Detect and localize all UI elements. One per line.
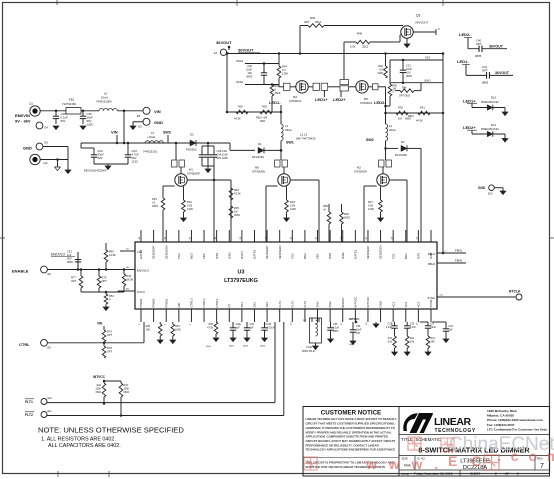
svg-text:SENSE3P: SENSE3P <box>152 246 156 259</box>
svg-text:. c o m: . c o m <box>497 448 554 464</box>
svg-text:R26: R26 <box>238 105 243 109</box>
svg-text:PWM2: PWM2 <box>152 298 156 307</box>
svg-text:OPT: OPT <box>71 279 77 283</box>
sense resistor R18 <box>286 186 288 200</box>
pin top 7 ISP3 <box>216 230 218 242</box>
svg-text:C46 10uF: C46 10uF <box>217 153 229 157</box>
svg-text:OPT 0603: OPT 0603 <box>399 95 411 98</box>
svg-text:50V: 50V <box>67 257 72 261</box>
svg-text:FLT2: FLT2 <box>25 413 33 417</box>
svg-text:FBH1: FBH1 <box>428 252 436 256</box>
svg-text:FLT1: FLT1 <box>25 400 33 404</box>
svg-text:0603: 0603 <box>234 213 240 217</box>
svg-text:WE-744778433: WE-744778433 <box>296 137 316 141</box>
pin top 2 SENSE3P <box>153 230 155 242</box>
svg-text:Fax: (408)434-0507: Fax: (408)434-0507 <box>487 423 515 427</box>
wire FB1 to L6 <box>81 110 99 112</box>
resistor R46 <box>344 41 356 43</box>
svg-text:NOTE: UNLESS OTHERWISE SPECIFI: NOTE: UNLESS OTHERWISE SPECIFIED <box>38 426 184 435</box>
svg-text:0603: 0603 <box>333 330 339 333</box>
capacitor C20 <box>263 64 265 73</box>
svg-text:R29: R29 <box>262 105 267 109</box>
pin top 3 SENSE3N <box>165 230 167 242</box>
resistor R30 top <box>299 26 301 54</box>
ground <box>244 338 250 342</box>
svg-text:VC2: VC2 <box>404 301 408 307</box>
svg-text:CTRL1: CTRL1 <box>215 298 219 308</box>
pin bottom 14 FLT3 <box>304 309 306 322</box>
svg-text:R33: R33 <box>152 197 157 201</box>
svg-text:CTRL2: CTRL2 <box>202 298 206 308</box>
svg-text:D1: D1 <box>258 142 262 146</box>
inductor L1 <box>280 106 282 124</box>
resistor R75 <box>102 330 106 342</box>
resistor R40 <box>105 243 107 250</box>
svg-text:33uH: 33uH <box>389 128 396 132</box>
svg-text:RTCLK: RTCLK <box>509 290 521 294</box>
svg-text:R32: R32 <box>234 188 239 192</box>
node LED2- vertical <box>385 107 387 124</box>
svg-text:OPT: OPT <box>482 69 488 73</box>
svg-text:CTRL: CTRL <box>19 342 30 347</box>
svg-text:TG3: TG3 <box>177 253 181 259</box>
ground <box>313 346 319 350</box>
svg-text:LED2+: LED2+ <box>333 97 346 102</box>
svg-text:0603: 0603 <box>152 204 158 208</box>
svg-text:9V - 36V: 9V - 36V <box>15 119 31 124</box>
svg-text:E5: E5 <box>139 125 143 129</box>
wire L6 to VIN turret <box>117 110 143 112</box>
wire FLT2 <box>47 415 284 417</box>
svg-text:FBH2: FBH2 <box>455 259 463 263</box>
svg-text:1M: 1M <box>234 210 238 214</box>
svg-text:OPT: OPT <box>304 20 310 24</box>
turret E8 ENABLE <box>41 266 48 273</box>
feedback divider left R26 R29 <box>227 111 281 113</box>
svg-text:OVP3: OVP3 <box>240 251 244 259</box>
svg-text:0.05: 0.05 <box>290 204 296 208</box>
ground <box>284 218 290 222</box>
capacitor C32 <box>232 322 234 328</box>
pin bottom 12 FLT1 <box>279 309 281 322</box>
pin top 6 FB3 <box>203 230 205 242</box>
node LED1+ drop <box>323 90 325 97</box>
wire gate vertical <box>364 185 377 187</box>
svg-text:GATE2: GATE2 <box>253 249 257 259</box>
switch M4 left pad <box>284 83 291 90</box>
ground <box>378 218 384 222</box>
svg-text:742792150: 742792150 <box>62 102 76 106</box>
wire left FB vertical <box>226 54 228 113</box>
svg-text:1. ALL RESISTORS ARE 0402.: 1. ALL RESISTORS ARE 0402. <box>41 437 116 443</box>
resistor R32 <box>229 188 233 200</box>
svg-text:GND: GND <box>23 146 32 151</box>
svg-text:1206: 1206 <box>282 72 288 76</box>
svg-text:BG3: BG3 <box>190 253 194 259</box>
ground <box>80 126 86 130</box>
ground <box>213 338 219 342</box>
svg-text:PMEG6010CEJ: PMEG6010CEJ <box>481 101 499 104</box>
svg-text:36VOUT: 36VOUT <box>495 71 510 75</box>
svg-text:BOOST: BOOST <box>341 297 345 307</box>
diode D2 <box>386 147 399 149</box>
svg-text:INTVCC: INTVCC <box>349 317 359 321</box>
svg-text:I/S2H: I/S2H <box>236 59 243 63</box>
svg-text:VC3: VC3 <box>416 301 420 307</box>
svg-text:33uH: 33uH <box>285 128 292 132</box>
svg-text:R35: R35 <box>234 206 239 210</box>
pin bottom 5 CTRL3 <box>190 309 192 322</box>
transistor M2 <box>385 148 387 160</box>
svg-text:SiT950DP: SiT950DP <box>187 172 200 176</box>
svg-text:CUSTOMER NOTICE: CUSTOMER NOTICE <box>321 410 381 417</box>
capacitor C34 <box>264 322 266 328</box>
resistor R79 <box>98 270 100 277</box>
svg-text:Si7611D4: Si7611D4 <box>289 99 302 103</box>
switch M5 right pad <box>368 86 372 88</box>
svg-text:GATE1: GATE1 <box>353 249 357 259</box>
svg-text:CTRL3: CTRL3 <box>190 298 194 308</box>
svg-text:DFLS260: DFLS260 <box>252 155 264 159</box>
ground <box>205 169 211 173</box>
pin top 23 ISP1 <box>417 230 419 242</box>
svg-text:100K: 100K <box>175 329 181 332</box>
svg-text:EN/UVLO: EN/UVLO <box>51 253 66 257</box>
svg-text:ISP1: ISP1 <box>416 252 420 259</box>
capacitor C28 C29 C46 bank <box>202 145 214 147</box>
svg-text:0.22uF: 0.22uF <box>267 327 275 330</box>
node LED2+ drop <box>340 91 342 97</box>
connector J12 <box>30 154 40 164</box>
svg-text:EEXZA1H330XP: EEXZA1H330XP <box>84 169 107 173</box>
svg-text:56.3K: 56.3K <box>127 278 134 282</box>
pin bottom 13 FLT2 <box>291 309 293 322</box>
svg-text:VC1: VC1 <box>391 301 395 307</box>
svg-text:2.2nF: 2.2nF <box>410 326 417 329</box>
inductor L3 <box>145 141 163 143</box>
svg-text:J12: J12 <box>43 161 48 165</box>
ground <box>157 340 163 344</box>
svg-text:0603: 0603 <box>260 120 266 123</box>
pin top 4 TG3 <box>178 230 180 242</box>
pin top 16 ISP2 <box>329 230 331 242</box>
svg-text:R47: R47 <box>368 200 373 204</box>
ground <box>502 112 508 116</box>
svg-text:SYNC: SYNC <box>427 296 435 300</box>
svg-text:0603: 0603 <box>243 346 249 348</box>
svg-text:BG2: BG2 <box>303 253 307 259</box>
resistor R12 <box>405 336 409 348</box>
svg-text:I/S3: I/S3 <box>425 56 430 60</box>
svg-text:SS3: SS3 <box>265 302 269 308</box>
svg-text:U3: U3 <box>238 270 245 276</box>
ground <box>53 126 59 130</box>
pin top 13 TG2 <box>291 230 293 242</box>
pin EN/UVLO <box>120 269 135 271</box>
pin bottom 16 SW2 <box>329 309 331 322</box>
wire M1 drain to pins <box>187 179 231 181</box>
svg-text:50V: 50V <box>61 119 66 123</box>
svg-text:NIP: NIP <box>177 303 181 308</box>
svg-text:7443251000: 7443251000 <box>96 100 112 104</box>
svg-text:1uF: 1uF <box>67 253 72 257</box>
svg-text:OVLO: OVLO <box>137 290 146 294</box>
svg-text:EMI/VIN: EMI/VIN <box>15 113 30 118</box>
svg-text:VIN: VIN <box>154 109 161 114</box>
svg-text:FB1: FB1 <box>69 98 75 102</box>
svg-text:1uF: 1uF <box>236 327 241 330</box>
svg-text:ENABLE: ENABLE <box>12 269 29 274</box>
svg-text:INTVCC: INTVCC <box>353 297 357 308</box>
svg-text:SENSE2P: SENSE2P <box>265 246 269 259</box>
svg-text:SW1: SW1 <box>286 140 294 144</box>
resistor R77 <box>80 270 82 277</box>
svg-text:OPT: OPT <box>476 42 482 46</box>
svg-text:SS1: SS1 <box>240 302 244 308</box>
wire M2 drain right <box>389 179 407 181</box>
red watermark characters <box>304 457 317 470</box>
svg-text:GND: GND <box>478 186 486 190</box>
svg-text:E12: E12 <box>488 192 493 196</box>
svg-text:0.4: 0.4 <box>282 68 286 72</box>
wire SW node down to M1 <box>175 143 177 160</box>
pin bottom 23 VC3 <box>417 309 419 322</box>
svg-text:BG1: BG1 <box>404 253 408 259</box>
connector J11 EMI/VIN <box>30 106 40 116</box>
transistor M4 <box>296 81 308 93</box>
ground <box>65 170 71 174</box>
svg-text:R46: R46 <box>357 32 363 36</box>
svg-text:47.5k: 47.5k <box>207 327 214 330</box>
svg-text:E11: E11 <box>48 410 53 413</box>
svg-text:22uF: 22uF <box>406 67 412 71</box>
wire right FB vertical <box>442 54 444 254</box>
svg-text:OPT: OPT <box>102 279 108 283</box>
svg-text:10V: 10V <box>406 71 411 75</box>
svg-text:J11: J11 <box>29 102 34 106</box>
svg-text:EN/UVLO: EN/UVLO <box>137 268 150 272</box>
svg-text:LED1-: LED1- <box>269 100 281 105</box>
pin top 21 TG1 <box>392 230 394 242</box>
pin bottom 17 BOOST <box>342 309 344 322</box>
svg-text:47uH: 47uH <box>306 345 312 349</box>
svg-text:6035-7R-R: 6035-7R-R <box>302 349 315 353</box>
wire input to FB1 <box>40 110 66 112</box>
svg-text:1206: 1206 <box>368 207 374 211</box>
svg-text:0603: 0603 <box>344 216 350 220</box>
svg-text:LTC Confidential For Customer: LTC Confidential For Customer Use Only <box>487 427 547 431</box>
svg-text:R39: R39 <box>344 212 349 216</box>
svg-text:E C: E C <box>448 453 486 469</box>
svg-text:GND: GND <box>379 301 383 307</box>
svg-text:1M: 1M <box>398 117 402 121</box>
svg-text:10K: 10K <box>146 329 151 332</box>
resistor R34 <box>278 54 280 67</box>
svg-text:Phone: (408)432-1900 www.li: Phone: (408)432-1900 www.linear.com <box>487 418 543 422</box>
pin top 12 SENSE2N <box>279 230 281 242</box>
capacitor C37 <box>394 322 396 326</box>
ground <box>443 339 449 343</box>
turret E5 GND <box>143 118 150 125</box>
svg-text:1210: 1210 <box>132 160 139 164</box>
capacitor C33 <box>246 322 248 328</box>
svg-text:5.6k: 5.6k <box>410 341 415 344</box>
svg-text:10V: 10V <box>356 332 361 335</box>
svg-text:GND: GND <box>154 120 163 125</box>
svg-text:SW2: SW2 <box>328 301 332 308</box>
ground <box>230 338 236 342</box>
resistor R49 <box>395 90 400 92</box>
capacitor C35 <box>330 322 332 328</box>
connector E4 <box>36 122 43 129</box>
diode D1 <box>258 147 264 153</box>
Linear Technology logo <box>403 413 418 431</box>
capacitor C39 <box>82 111 84 116</box>
svg-text:TG2: TG2 <box>290 253 294 259</box>
op-amp U3 LT3797EUKG body <box>135 242 437 309</box>
diode D3 <box>190 140 196 146</box>
svg-text:LED1+: LED1+ <box>463 98 476 103</box>
svg-text:SiT306DN: SiT306DN <box>252 170 265 174</box>
svg-text:OPT: OPT <box>107 350 113 354</box>
pin top 18 GATE1 <box>354 230 356 242</box>
svg-text:OF: OF <box>505 472 509 476</box>
svg-text:Q3: Q3 <box>416 14 420 18</box>
wire Q3 source terminal <box>413 31 436 33</box>
pin top 9 OVP3 <box>241 230 243 242</box>
ground <box>105 166 111 170</box>
svg-text:R40: R40 <box>109 250 114 254</box>
resistor R33 <box>161 198 165 210</box>
svg-text:5.6k: 5.6k <box>387 341 392 344</box>
svg-text:10V: 10V <box>247 71 252 75</box>
pin bottom 15 SW1 <box>317 309 319 322</box>
svg-text:24.9K: 24.9K <box>109 253 116 257</box>
pin bottom 10 SS2 <box>253 309 255 322</box>
resistor R41 <box>123 270 125 275</box>
switch mid pads <box>340 80 349 85</box>
resistor R39 <box>340 212 344 224</box>
ground <box>262 338 268 342</box>
sense resistor R47 <box>380 186 382 200</box>
pin bottom 22 VC2 <box>405 309 407 322</box>
ground GND pin <box>375 322 377 324</box>
svg-text:R34: R34 <box>282 65 287 69</box>
svg-text:INTVCC: INTVCC <box>93 375 106 379</box>
svg-text:0.5: 0.5 <box>379 68 383 72</box>
svg-text:SW2: SW2 <box>366 138 374 142</box>
svg-text:D10: D10 <box>491 96 497 100</box>
pin top 17 ISN2 <box>342 230 344 242</box>
inductor L6 <box>99 109 117 111</box>
resistor R45 <box>171 324 175 336</box>
svg-text:R30: R30 <box>398 106 403 110</box>
ground <box>55 167 61 171</box>
svg-text:E4: E4 <box>45 126 49 130</box>
svg-text:SW3: SW3 <box>163 131 171 135</box>
svg-text:E6: E6 <box>137 114 141 118</box>
svg-text:FBH2: FBH2 <box>428 262 436 266</box>
svg-text:VIN: VIN <box>97 322 103 326</box>
transistor Q3 <box>401 26 413 38</box>
svg-text:ISP3: ISP3 <box>215 252 219 259</box>
svg-text:R76: R76 <box>107 346 112 350</box>
svg-text:ISP2: ISP2 <box>328 252 332 259</box>
wire ctrl <box>47 342 144 344</box>
svg-text:1uF: 1uF <box>250 327 255 330</box>
svg-text:VIN: VIN <box>111 130 118 135</box>
pin bottom 19 INTVCC <box>367 309 369 322</box>
svg-text:0603: 0603 <box>406 74 412 78</box>
svg-text:LED1+: LED1+ <box>315 97 328 102</box>
svg-text:0603: 0603 <box>246 75 252 79</box>
resistor R11 <box>393 336 397 348</box>
svg-text:0603: 0603 <box>124 391 130 394</box>
capacitor C8 <box>427 322 429 326</box>
pin FBH2 <box>437 262 466 264</box>
svg-text:2: 2 <box>495 472 497 476</box>
svg-text:PWM3: PWM3 <box>139 298 143 307</box>
title block outline <box>303 407 550 477</box>
resistor R76 <box>102 346 106 358</box>
capacitor C23 <box>80 143 82 148</box>
resistor R38 <box>327 212 331 224</box>
feedback divider R30b R31 <box>386 112 444 114</box>
capacitor C19 <box>406 322 408 326</box>
svg-text:50V: 50V <box>98 156 103 160</box>
svg-text:LT3797EUKG: LT3797EUKG <box>224 278 258 284</box>
ground <box>502 139 508 143</box>
turret E9 CTRL <box>41 339 48 346</box>
sense resistor R16 <box>183 186 185 200</box>
ferrite bead FB1 <box>66 108 81 114</box>
svg-text:R16: R16 <box>187 200 192 204</box>
turret E3 GND <box>36 143 43 150</box>
svg-text:D11: D11 <box>491 123 496 127</box>
svg-text:36VOUT: 36VOUT <box>238 48 254 53</box>
svg-text:1206: 1206 <box>187 207 193 211</box>
ground <box>328 339 334 343</box>
svg-text:OPT: OPT <box>107 333 113 337</box>
switch M4 right pads <box>308 86 313 88</box>
transistor M1 <box>172 160 178 167</box>
ground <box>103 307 109 311</box>
svg-text:R49: R49 <box>402 87 407 90</box>
pin top 8 ISN3 <box>228 230 230 242</box>
pin top 5 BG3 <box>190 230 192 242</box>
svg-text:C28 C29: C28 C29 <box>217 149 228 153</box>
svg-text:D2: D2 <box>401 140 405 144</box>
svg-text:LED1-: LED1- <box>457 59 469 64</box>
svg-text:R53: R53 <box>109 294 114 298</box>
svg-text:SHEET: SHEET <box>470 472 481 476</box>
svg-text:C31: C31 <box>67 250 72 254</box>
svg-text:0.05: 0.05 <box>187 204 193 208</box>
node I/S3H <box>390 59 443 61</box>
svg-text:R77: R77 <box>71 276 76 280</box>
svg-text:22uF: 22uF <box>246 68 252 72</box>
svg-text:R75: R75 <box>107 330 112 334</box>
svg-text:E3: E3 <box>45 141 49 145</box>
svg-text:SiT306DN: SiT306DN <box>354 170 367 174</box>
ground <box>130 126 136 130</box>
svg-text:PWM1: PWM1 <box>164 298 168 307</box>
svg-text:E8: E8 <box>48 272 52 276</box>
capacitor C36 <box>352 324 354 330</box>
svg-text:R26: R26 <box>378 64 383 68</box>
svg-text:2.0k: 2.0k <box>350 45 356 49</box>
wire gate drop <box>162 210 164 242</box>
